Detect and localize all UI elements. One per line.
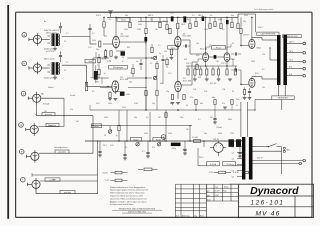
svg-text:Mikro symm.: Mikro symm.	[44, 59, 56, 61]
capacitor Cg4	[183, 141, 186, 153]
wire Tr4 tap5	[232, 164, 242, 166]
svg-text:0,1: 0,1	[222, 29, 224, 31]
resistor R6	[98, 54, 100, 78]
label Tonabn.	[41, 93, 50, 106]
terminal T3	[303, 60, 306, 63]
svg-text:30µ: 30µ	[231, 15, 234, 17]
label top2	[148, 15, 154, 17]
svg-text:820: 820	[170, 103, 173, 105]
wire jack5 out	[39, 152, 93, 154]
wire V3 out	[181, 40, 203, 54]
junction dots bus	[103, 17, 252, 19]
value labels scatter	[44, 15, 265, 149]
wire mains b	[253, 150, 282, 152]
wire xtra3	[213, 110, 217, 124]
svg-text:100k: 100k	[181, 24, 185, 26]
ground G4	[183, 153, 187, 155]
resistor Rp14	[240, 29, 242, 34]
wire tap 8 &#937;	[287, 67, 303, 69]
svg-text:geschirmt: geschirmt	[64, 191, 72, 194]
wire vert x127	[126, 110, 128, 141]
tube V8 EL84	[249, 78, 255, 87]
wire bus D	[91, 125, 192, 127]
svg-text:1k: 1k	[236, 105, 238, 107]
svg-text:40µ: 40µ	[125, 15, 128, 17]
svg-text:5k: 5k	[104, 135, 106, 137]
switch S1	[268, 144, 282, 148]
svg-text:ECC 808: ECC 808	[183, 36, 192, 38]
svg-text:0,1: 0,1	[125, 147, 127, 149]
resistor R12	[171, 95, 185, 100]
potentiometer P1	[108, 126, 111, 134]
wire Tr2 leads	[42, 63, 60, 74]
svg-text:5k: 5k	[183, 149, 185, 151]
svg-text:1k: 1k	[232, 43, 234, 45]
wire Tr4 tap6	[232, 170, 242, 172]
wire V2 cathode	[114, 93, 116, 94]
svg-text:DURCH DYNACORD: DURCH DYNACORD	[128, 210, 147, 213]
svg-text:0,1: 0,1	[109, 19, 111, 21]
resistor R12b	[196, 62, 198, 70]
svg-text:geschirmt: geschirmt	[60, 146, 68, 149]
wire mid verticals	[146, 58, 163, 110]
wire feed17	[214, 17, 216, 21]
resistor Rmr	[195, 100, 233, 105]
wire feed22	[240, 17, 242, 28]
svg-text:300k: 300k	[138, 24, 142, 26]
potentiometer P2	[136, 142, 139, 146]
text bus vals	[103, 145, 185, 153]
wire vert x93	[92, 116, 93, 154]
svg-text:Spannungen gegen Chassis gemes: Spannungen gegen Chassis gemessen mit	[110, 189, 149, 192]
label box b1	[130, 138, 141, 142]
label box j5	[55, 150, 69, 154]
resistor Rp11	[220, 24, 222, 29]
wire feed18	[220, 17, 222, 23]
resistor R3	[107, 51, 112, 63]
wire stub v5	[203, 47, 227, 66]
svg-text:130: 130	[262, 87, 265, 89]
resistor Rp8	[195, 21, 197, 27]
connector Netz	[283, 147, 290, 152]
legend 10W	[138, 168, 158, 171]
node e	[19, 149, 24, 154]
resistor Rd1	[187, 69, 189, 75]
wire vert x166	[165, 120, 167, 141]
svg-text:47k: 47k	[164, 51, 167, 53]
svg-text:82: 82	[232, 91, 234, 93]
svg-text:MV 46: MV 46	[255, 210, 280, 217]
svg-text:100k: 100k	[126, 94, 130, 96]
svg-text:6,3: 6,3	[232, 158, 234, 160]
capacitor C10	[183, 44, 190, 47]
label top3	[198, 15, 204, 17]
wire feed8	[159, 17, 161, 22]
svg-text:LAUTSPRECHER: LAUTSPRECHER	[261, 33, 276, 36]
svg-text:126-101: 126-101	[251, 200, 285, 207]
svg-text:0,5: 0,5	[210, 15, 212, 17]
svg-text:ECC 808: ECC 808	[120, 79, 129, 81]
svg-text:100k: 100k	[108, 103, 112, 105]
capacitor C4	[183, 16, 186, 22]
resistor Rd3	[200, 69, 202, 75]
svg-text:10n: 10n	[204, 133, 207, 135]
wire feed9	[166, 17, 168, 24]
wire xtra2	[165, 110, 167, 120]
wire feed21	[237, 17, 239, 23]
input jack Bu5	[26, 150, 39, 163]
wire feed20	[231, 17, 233, 22]
wire feed6	[145, 17, 147, 28]
svg-text:0,5M: 0,5M	[134, 103, 138, 105]
svg-text:geschirmt: geschirmt	[58, 151, 66, 154]
resistor R14	[118, 110, 120, 141]
text 126-101	[251, 200, 285, 207]
wire driver row	[186, 66, 237, 69]
capacitor C14 can	[236, 139, 241, 147]
wire ps bottom	[198, 141, 242, 166]
wire stub row1	[88, 24, 91, 37]
svg-text:68k: 68k	[200, 103, 203, 105]
svg-text:ERSATZTEILE UND SCHALTUNGEN NU: ERSATZTEILE UND SCHALTUNGEN NUR	[119, 207, 156, 210]
svg-text:Wag: Wag	[223, 191, 226, 193]
wire tb edge	[206, 201, 238, 218]
svg-text:Phase: Phase	[216, 47, 221, 49]
svg-text:Tag: Tag	[215, 187, 218, 189]
svg-text:500mV: 500mV	[48, 87, 54, 89]
svg-text:Name: Name	[224, 187, 228, 189]
svg-text:470: 470	[198, 77, 201, 79]
svg-text:25 Ω: 25 Ω	[289, 60, 294, 62]
wire jack3 out	[35, 102, 63, 115]
svg-text:0,1: 0,1	[262, 69, 264, 71]
input jack Bu4	[26, 123, 39, 136]
svg-text:0,1: 0,1	[198, 119, 200, 121]
resistor R1	[99, 41, 113, 47]
wire xtra4	[96, 52, 102, 84]
ground V3	[170, 55, 174, 60]
label box Lautsprecher	[257, 32, 279, 36]
resistor R2	[102, 49, 107, 61]
wire OT centre	[269, 47, 277, 60]
wire bus2	[138, 21, 168, 23]
svg-text:12k: 12k	[232, 59, 235, 61]
label top1	[96, 15, 102, 17]
wire V8 plate	[252, 77, 277, 79]
resistor R7	[132, 64, 134, 77]
wire ch A	[62, 37, 97, 45]
capacitor C2b	[94, 65, 98, 83]
wire feed5	[140, 17, 142, 21]
resistor Rp13	[237, 24, 239, 29]
svg-text:Röhrenvoltmeter bei 220 V~ Net: Röhrenvoltmeter bei 220 V~ Netz ohne	[110, 192, 146, 195]
svg-text:25µ: 25µ	[243, 21, 246, 23]
svg-text:Abgleich entladen. Messungen n: Abgleich entladen. Messungen nur durch	[110, 200, 146, 203]
terminal T1	[303, 42, 306, 45]
wire feed7	[151, 17, 153, 21]
wire V4 cath	[177, 92, 179, 99]
resistor Rd4	[206, 69, 208, 75]
svg-text:47k: 47k	[70, 109, 73, 111]
svg-text:50k: 50k	[96, 82, 99, 84]
wire V7 plate	[252, 38, 277, 40]
svg-text:0,1: 0,1	[186, 105, 188, 107]
capacitor C13 can	[229, 139, 235, 147]
wire tone1	[93, 58, 109, 78]
node d	[19, 123, 24, 128]
wire jack6 b	[36, 188, 98, 193]
tube V1 EF804	[113, 34, 130, 48]
svg-text:0,1: 0,1	[150, 19, 152, 21]
ground G5	[238, 156, 242, 158]
terminal T4	[303, 67, 306, 70]
tube V9 EZ81	[210, 139, 226, 156]
svg-text:geschirmt: geschirmt	[45, 113, 53, 116]
svg-text:EZ 81: EZ 81	[214, 139, 220, 141]
label box j3	[42, 113, 55, 117]
svg-text:250k: 250k	[168, 133, 172, 135]
capacitor C7	[115, 92, 124, 96]
wire feed16	[209, 17, 211, 23]
capacitor C8	[139, 59, 142, 70]
svg-text:1:7: 1:7	[66, 33, 68, 35]
label box mix	[91, 124, 101, 128]
label box j4	[46, 123, 59, 127]
transformer Tr2	[51, 62, 59, 74]
svg-text:Dynacord: Dynacord	[250, 185, 299, 197]
resistor Rd2	[194, 69, 196, 75]
svg-text:200Ω sym.: 200Ω sym.	[44, 77, 54, 79]
svg-text:Kristall: Kristall	[43, 103, 50, 106]
wire feed4	[129, 17, 131, 22]
wire V7 label	[257, 48, 262, 50]
svg-text:10k: 10k	[196, 43, 199, 45]
svg-text:EL 84: EL 84	[244, 35, 250, 37]
input jack Bu2	[29, 62, 42, 75]
wire V4 out	[181, 62, 197, 85]
input jack Bu1	[29, 33, 42, 46]
label box d1	[168, 46, 179, 50]
svg-text:gepr.: gepr.	[207, 195, 211, 197]
wire B+ risers	[241, 102, 248, 137]
wire feed15	[205, 17, 207, 50]
svg-text:Si 0,8 A: Si 0,8 A	[210, 163, 217, 166]
label Mikro 2b	[44, 77, 54, 79]
label box d2	[212, 46, 226, 50]
resistor R1b	[85, 82, 112, 91]
value labels scatter 2	[44, 13, 265, 182]
wire feed1	[103, 17, 105, 21]
node c	[21, 91, 26, 96]
ground V4	[171, 103, 180, 105]
tube V6 ECC83	[224, 53, 230, 62]
capacitor C17	[231, 52, 241, 55]
label Mikro 1	[44, 29, 60, 34]
tube V5 ECC83	[200, 48, 209, 61]
svg-text:abweichen. Elkos und Kondensat: abweichen. Elkos und Kondensatoren vor	[110, 197, 147, 200]
svg-text:22 k: 22 k	[171, 47, 175, 49]
svg-text:680: 680	[160, 83, 163, 85]
capacitor Cg1	[98, 141, 101, 155]
svg-text:0,1: 0,1	[192, 15, 194, 17]
node a	[22, 33, 27, 38]
svg-text:ECC 83: ECC 83	[210, 83, 216, 85]
wire feed14	[195, 17, 197, 21]
wire vert x190	[189, 125, 190, 141]
wire mid rail drops	[90, 105, 232, 110]
wire vert x97	[97, 140, 98, 193]
wire V3 cath	[177, 47, 179, 81]
text tone vals	[96, 53, 161, 84]
resistor R9	[156, 61, 158, 69]
resistor Rp2	[129, 22, 131, 28]
svg-text:T.A.: T.A.	[41, 93, 45, 96]
svg-text:Tonband: Tonband	[54, 147, 61, 149]
label box Uebertrager	[272, 96, 294, 100]
resistor Rp12	[231, 22, 233, 28]
capacitor C6	[116, 51, 125, 56]
svg-text:6,3: 6,3	[232, 146, 234, 148]
svg-text:64: 64	[122, 57, 124, 59]
svg-text:Bu: Bu	[44, 21, 46, 23]
svg-text:250 V: 250 V	[199, 157, 204, 159]
svg-text:GEGENTAKT: GEGENTAKT	[278, 97, 290, 100]
svg-text:0,5 W: 0,5 W	[233, 172, 240, 174]
pot tone1	[153, 56, 156, 80]
wire Tr1 leads	[42, 35, 60, 46]
svg-text:0,5: 0,5	[150, 63, 152, 65]
capacitor C5	[209, 55, 225, 59]
svg-text:5n: 5n	[136, 61, 138, 63]
svg-text:25µ: 25µ	[96, 49, 99, 51]
wire grid links	[198, 59, 233, 66]
resistor Rp10	[214, 22, 216, 27]
resistor Rp3	[145, 28, 147, 34]
title block left	[206, 184, 238, 201]
ground midrail	[223, 107, 227, 109]
wire stub row2	[104, 28, 107, 36]
wire Tr4 tap3	[232, 152, 242, 154]
svg-text:47k: 47k	[152, 147, 155, 149]
capacitor Cg3	[146, 141, 149, 156]
node f	[21, 177, 26, 182]
svg-text:T: T	[97, 65, 98, 67]
svg-text:ANSCHLUSS: ANSCHLUSS	[287, 35, 299, 38]
wire feed23	[251, 17, 253, 38]
svg-text:220k: 220k	[124, 29, 128, 31]
svg-text:125mA: 125mA	[216, 126, 222, 129]
resistor Rp4	[159, 22, 161, 28]
svg-text:Änderung: Änderung	[182, 214, 189, 217]
tube V2 EF804	[112, 77, 129, 93]
label Mikro 1b	[44, 49, 55, 54]
svg-text:500k: 500k	[104, 117, 108, 119]
node g	[161, 135, 166, 140]
wire OT top	[255, 14, 257, 32]
svg-text:ECC 83: ECC 83	[200, 48, 208, 50]
resistor Rd6	[218, 69, 220, 75]
svg-text:170 V: 170 V	[186, 63, 191, 65]
text above frame	[254, 8, 274, 11]
svg-text:300 V: 300 V	[148, 15, 154, 17]
potentiometer P3	[157, 142, 160, 146]
svg-text:6,3: 6,3	[232, 140, 234, 142]
tube V7 EL84	[244, 35, 255, 49]
resistor R8	[151, 44, 153, 53]
svg-text:2n: 2n	[159, 53, 161, 55]
svg-text:1 M: 1 M	[193, 89, 196, 91]
wire mains c	[253, 161, 303, 164]
wire mains a	[253, 147, 282, 174]
wire V2 grid	[100, 86, 112, 88]
svg-text:220k: 220k	[122, 107, 126, 109]
fuse F2	[223, 162, 236, 166]
svg-text:47k: 47k	[190, 97, 193, 99]
tube V4 ECC808	[175, 78, 192, 92]
wire jack4 out	[38, 126, 64, 128]
legend 20W	[103, 171, 128, 174]
svg-text:1:7: 1:7	[66, 62, 68, 64]
wire v5 plates	[206, 44, 231, 47]
label Mikro 2	[44, 59, 56, 61]
transformer Tr1	[51, 34, 59, 47]
svg-text:390k: 390k	[228, 119, 232, 121]
svg-text:29.4.67: 29.4.67	[215, 191, 220, 193]
svg-text:Ltspr.: Ltspr.	[52, 178, 57, 181]
tube V3 ECC808	[175, 33, 192, 47]
svg-text:Norm: Norm	[207, 199, 212, 201]
terminal mains 1	[303, 159, 306, 162]
label box chB	[85, 60, 96, 64]
ground V8	[243, 93, 252, 99]
label 220V	[257, 158, 264, 160]
legend 7W	[105, 179, 128, 182]
wire V7 grid	[241, 34, 249, 46]
wire vert x150	[149, 112, 151, 141]
revision table	[175, 184, 206, 217]
resistor Rp7	[189, 24, 191, 29]
ground G1	[98, 155, 102, 157]
label Klangregler	[109, 65, 128, 69]
capacitor Cg5	[238, 141, 241, 156]
wire V3 plate	[177, 29, 179, 37]
wire Tr4 tap2	[232, 146, 242, 148]
resistor Rx2	[165, 110, 190, 118]
wire feed13	[189, 17, 191, 23]
svg-text:1 M: 1 M	[222, 89, 225, 91]
wire B+ bus	[107, 14, 256, 17]
node b	[22, 61, 27, 66]
wire mid rail	[90, 109, 241, 111]
wire feed12	[183, 16, 185, 17]
wire V8 grid	[241, 70, 249, 84]
label box j6b	[60, 190, 75, 194]
wire ch C vert	[41, 98, 65, 126]
wire feed11	[177, 17, 179, 23]
wire Tr4 tap7	[232, 176, 242, 178]
capacitor C3	[171, 16, 174, 21]
fuse F1	[207, 162, 220, 166]
label box b2	[153, 138, 164, 142]
label netzteil	[199, 157, 204, 159]
wire spk top	[32, 173, 98, 177]
capacitor C2	[59, 52, 62, 63]
text mid vals	[186, 63, 226, 91]
ground V2	[108, 99, 117, 101]
wire feed19	[226, 17, 228, 50]
title block frame	[230, 184, 314, 217]
svg-text:0,1: 0,1	[92, 33, 94, 35]
